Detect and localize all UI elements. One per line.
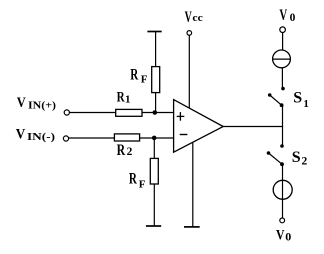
terminal Vcc — [187, 31, 192, 36]
svg-text:V: V — [185, 9, 192, 26]
svg-text:F: F — [139, 178, 146, 190]
svg-text:R: R — [117, 142, 126, 159]
wire Vcc terminal down to op-amp top edge — [188, 35, 190, 107]
resistor RF (top feedback) — [152, 67, 160, 93]
ground bar (bottom left, below RF) — [146, 225, 161, 227]
svg-text:S: S — [293, 90, 302, 107]
terminal V0 top — [280, 27, 286, 33]
op-amp U1 — [174, 100, 224, 153]
svg-text:R: R — [117, 89, 125, 105]
wire current source I1 to switch S1 — [281, 68, 283, 89]
wire R1 to op-amp + input — [142, 112, 174, 114]
svg-text:1: 1 — [125, 94, 131, 106]
resistor RF (bottom feedback) — [150, 158, 158, 184]
terminal V_IN(+) — [64, 110, 69, 115]
wire S2 pivot through I2 to V0 bottom terminal — [282, 164, 284, 218]
terminal V0 bottom — [280, 218, 285, 223]
svg-text:cc: cc — [192, 13, 203, 24]
svg-text:V: V — [17, 95, 26, 111]
svg-text:2: 2 — [127, 146, 133, 158]
ground bar (bottom, op-amp negative supply) — [184, 226, 200, 228]
svg-text:R: R — [129, 170, 137, 187]
wire top RF column (bar to node A) — [155, 32, 157, 113]
switch S1 — [268, 87, 285, 107]
node A junction dot (R1 / RF / + input) — [153, 110, 158, 115]
svg-text:V: V — [279, 7, 287, 24]
svg-text:0: 0 — [290, 12, 296, 24]
svg-text:F: F — [141, 73, 148, 85]
svg-text:V: V — [16, 126, 26, 142]
switch S2 — [267, 144, 284, 166]
svg-text:IN(+): IN(+) — [28, 100, 56, 111]
resistor R2 — [114, 134, 139, 141]
wire op-amp output to switch column — [223, 126, 283, 128]
wire S1 pivot through output node to S2 contact — [282, 105, 284, 146]
node B junction dot (R2 / RF / - input) — [152, 136, 157, 141]
wire bottom RF column (node B to bottom bar) — [153, 138, 155, 226]
svg-text:IN(-): IN(-) — [27, 132, 55, 143]
current source I1 (top, circle with horizontal bar) — [273, 50, 291, 68]
svg-text:1: 1 — [303, 98, 309, 110]
wire V0 top terminal to current source I1 — [282, 33, 284, 51]
resistor R1 — [116, 109, 142, 116]
svg-text:R: R — [130, 67, 138, 84]
svg-text:S: S — [292, 149, 301, 166]
op-amp U1 minus input marking — [180, 134, 188, 136]
svg-text:0: 0 — [285, 229, 291, 243]
svg-text:2: 2 — [302, 155, 308, 167]
op-amp U1 plus input marking — [177, 112, 185, 121]
svg-text:V: V — [276, 228, 285, 244]
current source I2 (bottom circle) — [273, 180, 292, 199]
wire V_IN(-) terminal to R2 — [69, 137, 116, 139]
wire V_IN(+) terminal to R1 — [69, 112, 117, 114]
wire R2 to op-amp - input — [139, 137, 174, 139]
ground bar (top, above RF) — [147, 31, 161, 33]
terminal V_IN(-) — [63, 136, 68, 141]
wire op-amp bottom edge down to ground — [192, 142, 194, 227]
